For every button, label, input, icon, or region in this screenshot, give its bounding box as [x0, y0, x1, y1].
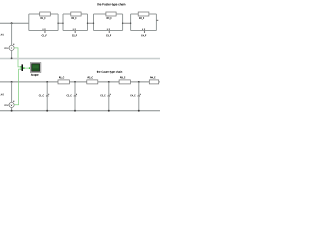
- wire: cap wire right section 3: [110, 30, 123, 32]
- wire: cap wire left section 3: [94, 30, 109, 32]
- node: C2_C junction on Cauer rail: [74, 81, 76, 83]
- wire: Foster boundary vertical right of section 2: [87, 14, 89, 31]
- wire: shunt branch upper C4_C: [138, 82, 140, 96]
- wire: shunt branch lower C3_C: [108, 97, 110, 111]
- node: ground junction C4_C: [138, 110, 140, 112]
- voltmeter Vm1: [9, 45, 14, 50]
- capacitor C4_F: [144, 28, 145, 33]
- node: Vm2 junction on Cauer rail: [11, 81, 13, 83]
- wire: Foster boundary vertical left of section 4: [130, 14, 132, 31]
- node: Foster input junction: [11, 22, 13, 24]
- node: ground junction C3_C: [108, 110, 110, 112]
- wire: cap wire left section 1: [29, 30, 45, 32]
- wire: Vm1 bottom lead: [11, 50, 13, 58]
- wire: Vm2 bottom lead: [11, 107, 13, 110]
- wire: Foster boundary vertical right of section 4: [155, 14, 157, 31]
- wire: Cauer rail segment 2: [98, 81, 119, 83]
- wire: lead into R2_F: [63, 13, 71, 15]
- resistor R2_F: [71, 12, 81, 16]
- wire: Foster series mid link: [58, 22, 63, 24]
- node: Foster output stub: [156, 19, 158, 21]
- wire: Foster boundary vertical right of section 1: [57, 14, 59, 31]
- resistor R4_C: [149, 80, 158, 84]
- title: the Cauer-type chain: [97, 70, 98, 71]
- wire: Vm2 top lead: [11, 82, 13, 102]
- wire: cap wire right section 2: [76, 30, 88, 32]
- wire: shunt branch upper C2_C: [74, 82, 76, 96]
- resistor R1_C: [58, 80, 69, 84]
- wire: lead into R1_F: [29, 13, 40, 15]
- wire: cap wire left section 2: [63, 30, 75, 32]
- wire: Foster boundary vertical left of section 2: [62, 14, 64, 31]
- scope: [30, 63, 41, 73]
- node: C3_C junction on Cauer rail: [108, 81, 110, 83]
- title: the Foster-type chain: [97, 3, 98, 4]
- node: C4_C junction on Cauer rail: [138, 81, 140, 83]
- wire: Foster boundary vertical left of section 3: [93, 14, 95, 31]
- capacitor C1_C: [46, 94, 49, 97]
- wire: ground rail: [0, 110, 160, 112]
- wire: Foster boundary vertical right of section 3: [122, 14, 124, 31]
- wire: Cauer rail segment 1: [69, 81, 86, 83]
- wire: Cauer rail segment 4: [159, 81, 160, 83]
- wire: cap wire right section 1: [46, 30, 59, 32]
- signal wire: Vm1 to mux: [14, 48, 21, 67]
- node: Vm1 junction on middle rail: [11, 57, 13, 59]
- wire: Foster series mid link: [123, 22, 131, 24]
- wire: middle rail: [0, 58, 160, 60]
- capacitor C3_F: [109, 28, 110, 33]
- node: ground junction Vm2: [11, 110, 13, 112]
- wire: shunt branch lower C4_C: [138, 97, 140, 111]
- node: ground junction C1_C: [46, 110, 48, 112]
- wire: Foster boundary vertical b0: [28, 14, 30, 31]
- wire: shunt branch lower C2_C: [74, 97, 76, 111]
- capacitor C4_C: [138, 94, 141, 97]
- capacitor C3_C: [108, 94, 111, 97]
- wire: Foster series mid link: [88, 22, 94, 24]
- wire: Cauer rail segment 0: [0, 81, 58, 83]
- capacitor C2_F: [75, 28, 76, 33]
- wire: Cauer rail segment 3: [130, 81, 149, 83]
- wire: Foster input rail: [0, 22, 29, 24]
- node: ground junction C2_C: [74, 110, 76, 112]
- capacitor C2_C: [74, 94, 77, 97]
- wire: Vm1 top lead: [11, 23, 13, 45]
- resistor R3_F: [106, 12, 116, 16]
- resistor R2_C: [87, 80, 98, 84]
- wire: cap wire left section 4: [131, 30, 144, 32]
- wire: lead into R3_F: [94, 13, 106, 15]
- wire: cap wire right section 4: [145, 30, 156, 32]
- wire: R4_F to boundary: [149, 13, 157, 15]
- wire: shunt branch upper C3_C: [108, 82, 110, 96]
- resistor R1_F: [40, 12, 51, 16]
- wire: R1_F to boundary: [50, 13, 58, 15]
- wire: R2_F to boundary: [81, 13, 87, 15]
- resistor R3_C: [119, 80, 130, 84]
- wire: lead into R4_F: [131, 13, 139, 15]
- capacitor C1_F: [44, 28, 45, 33]
- wire: R3_F to boundary: [116, 13, 123, 15]
- resistor R4_F: [138, 12, 149, 16]
- voltmeter Vm2: [9, 102, 14, 107]
- signal wire: mux to scope: [25, 67, 31, 69]
- signal wire: Vm2 to mux: [14, 69, 21, 105]
- wire: shunt branch lower C1_C: [46, 97, 48, 111]
- signal mux: [20, 66, 21, 67]
- wire: shunt branch upper C1_C: [46, 82, 48, 96]
- node: C1_C junction on Cauer rail: [46, 81, 48, 83]
